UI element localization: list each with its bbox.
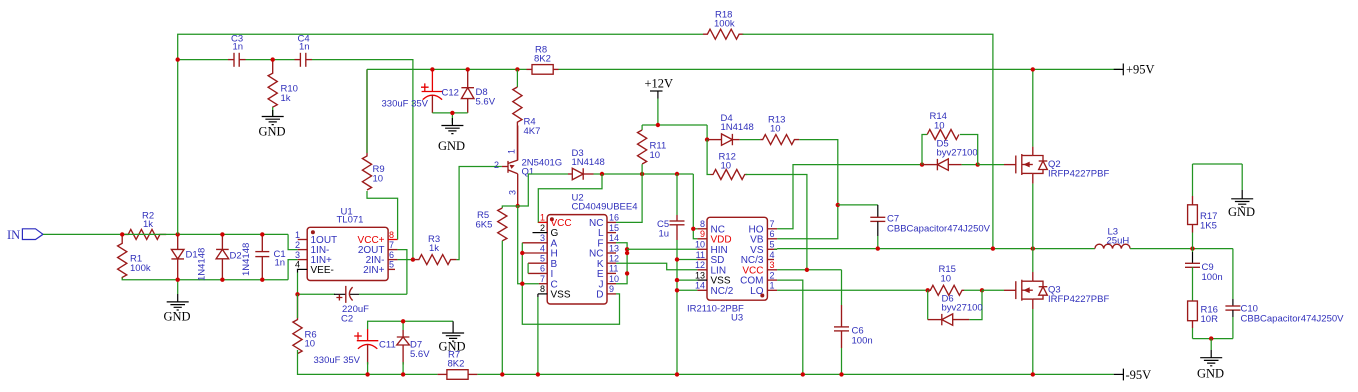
wire R13 to VB column xyxy=(777,140,838,239)
junction dot C2 left / VEE node xyxy=(295,292,299,296)
svg-text:2: 2 xyxy=(494,160,499,170)
junction dot NC/2 tap xyxy=(675,288,679,292)
wire Q1 node right up to D3 row xyxy=(518,174,568,206)
resistor R17 1K5 box style xyxy=(1188,164,1218,249)
wire U3 COM pin2 down to rail xyxy=(777,280,803,374)
svg-text:1: 1 xyxy=(540,213,545,223)
wire C12/D8 bottom row xyxy=(432,112,467,114)
wire tap down to U2 pin16 xyxy=(616,174,642,222)
junction dot D5 right node xyxy=(976,162,980,166)
junction dot R4/R8 node xyxy=(515,67,519,71)
wire U2 B-I tie loop xyxy=(527,263,529,273)
wire LO gate row to Q3 xyxy=(982,289,1004,291)
svg-text:byv27100: byv27100 xyxy=(942,303,983,314)
wire R15 to right node xyxy=(964,289,982,291)
svg-text:100n: 100n xyxy=(852,336,873,347)
svg-text:1N4148: 1N4148 xyxy=(197,248,208,281)
wire top signal net xyxy=(122,233,288,235)
junction dot R15 left node xyxy=(926,288,930,292)
wire U2 outputs F/NC tie column xyxy=(616,243,627,284)
junction dot U2 pin13 xyxy=(625,251,629,255)
junction dot U2 VCC tap xyxy=(600,172,604,176)
svg-text:U3: U3 xyxy=(731,313,743,324)
wire Q3 source to rail xyxy=(1032,309,1034,374)
svg-text:1n: 1n xyxy=(275,258,286,269)
wire left vertical feedback column x=177.7 xyxy=(178,34,703,234)
svg-text:2: 2 xyxy=(770,270,775,280)
svg-text:100k: 100k xyxy=(714,19,735,30)
svg-text:10: 10 xyxy=(721,161,732,172)
diode D1 1N4148 xyxy=(171,234,207,281)
junction dot R5 at rail xyxy=(500,372,504,376)
svg-text:CBBCapacitor474J250V: CBBCapacitor474J250V xyxy=(887,224,991,235)
svg-text:6K5: 6K5 xyxy=(476,220,493,231)
wire Q2 drain to +95V row xyxy=(1032,69,1034,146)
resistor R4 4K7 xyxy=(513,69,541,160)
svg-text:2: 2 xyxy=(540,223,545,233)
wire local -5.6V / GND row above C11 D7 xyxy=(368,321,454,329)
svg-text:6: 6 xyxy=(389,250,394,260)
svg-text:GND: GND xyxy=(164,310,191,324)
svg-text:330uF 35V: 330uF 35V xyxy=(382,99,429,110)
resistor R5 6K5 xyxy=(476,206,518,241)
svg-text:D2: D2 xyxy=(230,251,242,262)
svg-text:GND: GND xyxy=(259,125,286,139)
svg-text:8: 8 xyxy=(389,230,394,240)
svg-text:5: 5 xyxy=(540,254,545,264)
svg-text:GND: GND xyxy=(438,139,465,153)
capacitor C1 1n xyxy=(255,234,285,279)
wire U2 input column A/H/C feedback xyxy=(522,243,619,324)
wire IN to R1/R2 node xyxy=(43,233,122,235)
capacitor C7 CBBCapacitor474J250V xyxy=(870,205,990,249)
svg-text:13: 13 xyxy=(695,270,705,280)
wire Q2 source to midpoint xyxy=(1032,184,1034,249)
junction dot HIN tap xyxy=(625,247,629,251)
capacitor C6 100n xyxy=(834,270,873,375)
svg-text:C11: C11 xyxy=(379,340,396,351)
junction dot C7 at VS row xyxy=(876,246,880,250)
svg-text:C12: C12 xyxy=(442,88,459,99)
svg-text:C2: C2 xyxy=(341,314,353,325)
svg-text:1k: 1k xyxy=(143,219,153,230)
junction dot R11 bottom / U2 pin16 tap xyxy=(640,172,644,176)
resistor R6 10 xyxy=(293,294,317,353)
power flag +12V xyxy=(645,77,674,126)
junction dot C12/D8 bottom xyxy=(450,111,454,115)
IC U3 IR2110-2PBF xyxy=(687,217,777,323)
power flag -95V xyxy=(1114,368,1152,382)
junction dot R17/C9 column xyxy=(1190,246,1194,250)
svg-text:VSS: VSS xyxy=(551,290,571,301)
svg-text:4K7: 4K7 xyxy=(524,126,541,137)
wire D5 to right node xyxy=(962,164,978,166)
svg-text:1n: 1n xyxy=(233,42,244,53)
wire R12 to U3 VCC pin3 xyxy=(746,175,807,270)
wire U2 VSS pin8 down to rail xyxy=(537,294,539,375)
capacitor C12 330uF 35V electrolytic xyxy=(382,69,459,113)
svg-text:8: 8 xyxy=(540,284,545,294)
wire U1 pin7 2OUT down to C2 right xyxy=(398,250,407,295)
transistor Q2 IRFP4227PBF high-side MOSFET xyxy=(1004,147,1109,184)
junction dot D5 left node xyxy=(920,162,924,166)
svg-text:10: 10 xyxy=(650,150,661,161)
junction dot D7 top xyxy=(401,319,405,323)
ground GND right of R17 xyxy=(1228,164,1255,219)
resistor R14 10 parallel loop xyxy=(922,111,978,165)
svg-text:10: 10 xyxy=(373,174,384,185)
svg-text:D: D xyxy=(596,290,603,301)
svg-text:8K2: 8K2 xyxy=(448,359,465,370)
wire C5 column tap to U3 VSS xyxy=(677,279,697,281)
power flag +95V xyxy=(1114,63,1155,77)
junction dot U2 pin11 xyxy=(625,271,629,275)
junction dot C5 tap xyxy=(675,172,679,176)
wire jog to U1 pin2 xyxy=(288,234,298,249)
resistor R12 10 xyxy=(711,152,748,180)
svg-text:2IN+: 2IN+ xyxy=(363,265,385,276)
svg-text:10: 10 xyxy=(305,339,316,350)
svg-text:VEE-: VEE- xyxy=(311,265,334,276)
svg-text:7: 7 xyxy=(389,240,394,250)
wire bottom rail right of R7 xyxy=(477,373,1113,375)
svg-text:10: 10 xyxy=(941,274,952,285)
resistor R10 1k xyxy=(268,60,298,108)
junction dot R10 top xyxy=(271,57,275,61)
svg-text:12: 12 xyxy=(695,260,705,270)
svg-text:11: 11 xyxy=(609,264,618,274)
capacitor C4 1n xyxy=(295,34,313,67)
zener diode D8 5.6V xyxy=(461,69,495,113)
svg-text:100n: 100n xyxy=(1202,272,1223,283)
svg-text:5.6V: 5.6V xyxy=(410,349,430,360)
capacitor C5 1u xyxy=(657,174,685,374)
diode D2 1N4148 xyxy=(216,234,252,279)
ground GND under C12/D8 xyxy=(438,113,465,153)
svg-text:7: 7 xyxy=(540,274,545,284)
wire R12 column xyxy=(707,140,710,175)
svg-text:330uF 35V: 330uF 35V xyxy=(314,355,361,366)
junction dot +12V stem xyxy=(656,123,660,127)
wire U3 VB pin6 column handled above; junction dot C7 tap xyxy=(836,203,840,207)
wire C5 column tap to U3 SD xyxy=(677,259,697,261)
junction dot D7 bottom xyxy=(401,372,405,376)
wire D3 row with taps xyxy=(594,173,694,175)
resistor R1 xyxy=(118,234,151,278)
wire gate row to Q2 xyxy=(978,164,1004,166)
svg-text:6: 6 xyxy=(770,229,775,239)
wire C5 column tap to U3 NC/2 xyxy=(677,289,697,291)
svg-text:1k: 1k xyxy=(429,243,439,254)
svg-text:+12V: +12V xyxy=(645,77,674,91)
svg-text:5.6V: 5.6V xyxy=(476,97,496,108)
junction dot R18 at VS row xyxy=(991,246,995,250)
svg-text:3: 3 xyxy=(540,233,545,243)
diode D6 byv27100 parallel loop xyxy=(928,290,983,325)
svg-text:1u: 1u xyxy=(659,229,670,240)
junction dot D4 anode node xyxy=(705,137,709,141)
svg-text:1k: 1k xyxy=(281,93,291,104)
wire Q1 node down to U2 pin7 C xyxy=(518,206,539,284)
svg-text:NC/2: NC/2 xyxy=(711,286,734,297)
svg-text:9: 9 xyxy=(700,229,705,239)
capacitor C3 1n xyxy=(228,34,246,67)
junction dot U2 C input crossing xyxy=(520,282,524,286)
svg-text:11: 11 xyxy=(696,250,705,260)
ground GND under D1 xyxy=(164,280,191,324)
svg-text:14: 14 xyxy=(695,281,705,291)
svg-text:1: 1 xyxy=(507,149,517,154)
capacitor C11 330uF 35V electrolytic xyxy=(314,329,396,374)
wire +12V corner down to D4 node xyxy=(706,125,708,140)
wire C7 tap horizontal xyxy=(838,204,878,206)
svg-text:3: 3 xyxy=(295,250,300,260)
resistor R16 10R box style xyxy=(1188,301,1218,339)
capacitor C10 CBBCapacitor474J250V xyxy=(1225,249,1344,339)
svg-text:8K2: 8K2 xyxy=(534,54,551,65)
port IN xyxy=(22,229,43,240)
svg-text:5: 5 xyxy=(389,260,394,270)
resistor R9 xyxy=(362,69,384,190)
resistor R13 10 xyxy=(760,115,799,145)
svg-text:1: 1 xyxy=(770,281,775,291)
wire GND net jog to U1 pin3 xyxy=(288,260,298,280)
wire U2 pin12 K to U3 LIN xyxy=(616,263,697,270)
wire output row after L3 xyxy=(1130,248,1233,250)
wire C3 to R10 node xyxy=(246,59,295,61)
svg-text:25uH: 25uH xyxy=(1107,236,1130,247)
svg-text:9: 9 xyxy=(609,284,614,294)
wire +5.6V sub-rail row y=69.4 xyxy=(367,68,527,70)
svg-text:8: 8 xyxy=(700,219,705,229)
transistor Q3 IRFP4227PBF low-side MOSFET xyxy=(1004,272,1109,309)
svg-text:4: 4 xyxy=(540,243,545,253)
svg-text:4: 4 xyxy=(770,250,775,260)
svg-text:VB: VB xyxy=(750,234,764,245)
svg-text:10: 10 xyxy=(770,124,781,135)
svg-text:10: 10 xyxy=(609,274,619,284)
wire U1 pin4 VEE- to C2 left node xyxy=(297,269,299,294)
junction dot VSS tap xyxy=(675,278,679,282)
resistor R8 8K2 box style xyxy=(527,45,559,75)
wire R9 bottom to U1 pin8 VCC+ xyxy=(367,191,398,240)
diode D4 1N4148 xyxy=(707,113,754,145)
transistor Q1 2N5401G xyxy=(494,126,562,207)
svg-text:byv27100: byv27100 xyxy=(937,148,978,159)
svg-text:3: 3 xyxy=(770,260,775,270)
svg-text:CD4049UBEE4: CD4049UBEE4 xyxy=(572,202,638,213)
wire U3 VCC pin3 row xyxy=(777,269,841,271)
svg-text:10R: 10R xyxy=(1201,314,1219,325)
junction dot VCC/R12 node xyxy=(805,268,809,272)
svg-text:6: 6 xyxy=(540,264,545,274)
wire R6 bottom to bottom rail xyxy=(298,350,438,374)
wire U1 pin6 to R3 node xyxy=(398,259,413,261)
junction dot COM at rail xyxy=(801,372,805,376)
junction dot R15 right node xyxy=(980,288,984,292)
resistor R18 100k xyxy=(703,10,743,40)
ground GND under R10 xyxy=(259,107,286,138)
junction dot C3 row at x=177.7 xyxy=(176,57,180,61)
svg-text:1N4148: 1N4148 xyxy=(721,122,754,133)
svg-text:15: 15 xyxy=(609,223,619,233)
junction dot Q3 source at rail xyxy=(1031,372,1035,376)
wire +95V row to flag xyxy=(559,68,1121,70)
svg-text:13: 13 xyxy=(609,243,619,253)
wire D4 to R13 xyxy=(740,139,761,141)
junction dot U3 pin8 tap xyxy=(691,227,695,231)
wire R16/C10 bottom row xyxy=(1193,338,1233,340)
resistor R11 10 xyxy=(638,125,667,174)
junction dot C11 bottom xyxy=(365,372,369,376)
svg-text:10: 10 xyxy=(934,121,945,132)
svg-text:-95V: -95V xyxy=(1126,368,1152,382)
svg-text:VDD: VDD xyxy=(711,234,732,245)
op-amp U1 TL071 xyxy=(295,207,398,281)
junction dot Q2/Q3 midpoint xyxy=(1031,246,1035,250)
svg-text:IN: IN xyxy=(7,228,20,242)
svg-text:2: 2 xyxy=(295,240,300,250)
inductor L3 25uH xyxy=(1095,227,1130,249)
wire R5 bottom to rail xyxy=(501,241,503,375)
svg-text:1n: 1n xyxy=(299,42,310,53)
svg-text:100k: 100k xyxy=(130,263,151,274)
svg-text:14: 14 xyxy=(609,233,619,243)
junction dot C6 at rail xyxy=(839,372,843,376)
wire stub to U3 pin8 xyxy=(693,228,697,230)
wire D3 row corner down to U3 pin8/9 xyxy=(693,174,697,239)
node IN input net: port flag xyxy=(7,228,43,242)
svg-text:+95V: +95V xyxy=(1126,63,1155,77)
junction dot U2 VSS at rail xyxy=(536,372,540,376)
ground GND on D7 row xyxy=(439,321,466,353)
wire U3 VS pin5 output row xyxy=(774,248,777,250)
svg-text:1: 1 xyxy=(295,230,300,240)
wire HIN long wire to U3 pin10 xyxy=(627,248,697,250)
svg-text:TL071: TL071 xyxy=(337,215,364,226)
junction dot C5 column at rail xyxy=(675,372,679,376)
junction dot U1 pin6 node xyxy=(411,257,415,261)
resistor R3 1k xyxy=(413,234,457,265)
svg-text:10: 10 xyxy=(695,240,705,250)
capacitor C2 220uF electrolytic xyxy=(298,286,407,325)
junction dot GND stem xyxy=(1209,336,1213,340)
svg-text:GND: GND xyxy=(1197,367,1224,381)
wire C3/C4 row xyxy=(178,59,228,61)
svg-text:16: 16 xyxy=(609,213,619,223)
svg-text:IRFP4227PBF: IRFP4227PBF xyxy=(1048,294,1109,305)
svg-text:LO: LO xyxy=(750,286,764,297)
resistor R15 10 xyxy=(928,264,964,295)
svg-text:CBBCapacitor474J250V: CBBCapacitor474J250V xyxy=(1241,314,1345,325)
capacitor C9 100n xyxy=(1185,249,1223,301)
diode D3 1N4148 xyxy=(568,148,605,180)
svg-text:1N4148: 1N4148 xyxy=(241,243,252,276)
svg-text:7: 7 xyxy=(770,219,775,229)
junction dot Q1 emitter node xyxy=(516,204,520,208)
junction dots input area xyxy=(120,232,124,236)
junction dot D8 top xyxy=(466,67,470,71)
wire C4 row down to U1 pin6 node xyxy=(312,60,413,260)
wire U3 LO pin1 gate row xyxy=(777,289,928,291)
svg-text:12: 12 xyxy=(609,254,619,264)
svg-text:GND: GND xyxy=(1228,205,1255,219)
svg-text:1K5: 1K5 xyxy=(1200,221,1217,232)
svg-text:5: 5 xyxy=(770,240,775,250)
junction dot SD tap xyxy=(675,257,679,261)
wire U3 HO pin7 up to gate row xyxy=(777,165,922,229)
wire tap down to U2 pin1 VCC xyxy=(538,174,602,222)
svg-text:IRFP4227PBF: IRFP4227PBF xyxy=(1048,169,1109,180)
junction dot Q2 drain at +95V row xyxy=(1031,67,1035,71)
junction dot C12 top xyxy=(430,67,434,71)
wire Q3 drain to midpoint xyxy=(1032,249,1034,272)
wire R18 row to feedback node xyxy=(743,34,993,248)
IC U2 CD4049UBEE4 xyxy=(522,193,637,305)
zener diode D7 5.6V xyxy=(397,321,430,374)
diode D5 byv27100 xyxy=(922,139,978,171)
svg-text:4: 4 xyxy=(295,260,300,270)
resistor R2 xyxy=(122,211,166,240)
resistor R7 8K2 box style xyxy=(438,350,478,380)
wire R1 bottom to GND rail xyxy=(122,278,288,280)
wire R3 up to Q1 base xyxy=(457,167,502,260)
junction dot U2 pin4 H xyxy=(520,251,524,255)
wire +12V row xyxy=(642,124,707,126)
svg-text:1N4148: 1N4148 xyxy=(572,157,605,168)
ground GND under R16/C10 xyxy=(1197,339,1224,381)
wire R17 top to GND xyxy=(1193,163,1243,165)
svg-text:3: 3 xyxy=(508,190,518,195)
